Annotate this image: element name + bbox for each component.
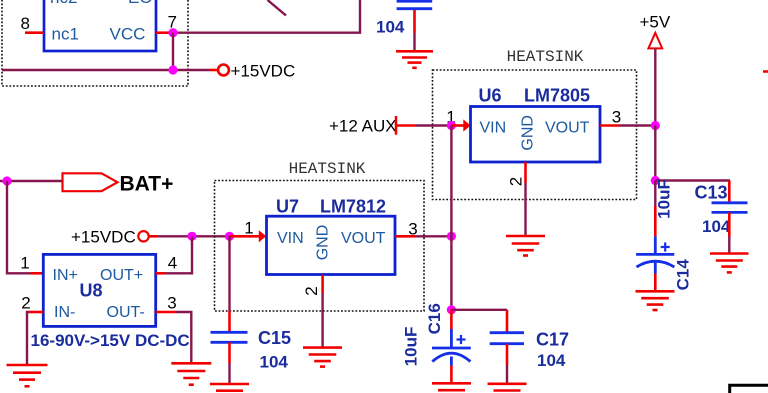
svg-text:104: 104 [376, 17, 405, 36]
ground (U8 pin3) [171, 363, 211, 384]
plus sign (C16) [457, 335, 466, 344]
junction U6 pin1 [447, 121, 456, 130]
capacitor C15 bottom lead [228, 342, 231, 363]
U6 pin3 stub [600, 124, 620, 127]
svg-text:HEATSINK: HEATSINK [289, 160, 366, 178]
svg-text:GND: GND [315, 225, 332, 261]
dotted enclosure HEATSINK U7 [215, 181, 425, 312]
capacitor C16 bottom lead [450, 357, 453, 366]
junction main vertical at U7 out [447, 232, 456, 241]
sheet frame corner (bottom right) [730, 385, 768, 393]
capacitor C14 curved plate [637, 261, 675, 267]
capacitor C17 bottom lead [506, 344, 509, 365]
capacitor C17 top lead [506, 310, 509, 333]
svg-text:LM7812: LM7812 [320, 197, 386, 217]
U6 pin1 arrow [451, 124, 464, 127]
regulator U6 body [471, 107, 601, 163]
svg-text:U7: U7 [276, 197, 299, 217]
capacitor C17 plates [490, 331, 524, 334]
svg-text:BAT+: BAT+ [120, 173, 174, 196]
svg-text:EO: EO [128, 0, 153, 7]
capacitor C16 curved plate [432, 353, 470, 361]
ground (C13) [710, 254, 749, 273]
wire pin7 junction down [172, 33, 174, 70]
svg-text:IN+: IN+ [53, 267, 78, 284]
svg-text:+15VDC: +15VDC [231, 61, 296, 80]
wire pin7 to top component [171, 0, 360, 33]
capacitor C15 plates [211, 331, 248, 334]
ground (C15) [210, 384, 249, 391]
capacitor C14 bottom lead [654, 263, 657, 274]
port tick +12 AUX [395, 116, 398, 135]
U7 pin3 stub [395, 235, 415, 238]
wire +15VDC stub red [149, 235, 157, 238]
U7 pin2 stub [321, 275, 324, 294]
wire branch to C17 [451, 309, 507, 311]
U8 pin4 stub [156, 272, 165, 275]
capacitor C13 top lead [728, 181, 731, 203]
svg-text:104: 104 [702, 217, 731, 236]
port circle +15VDC (top) [218, 65, 229, 76]
svg-text:16-90V->15V DC-DC: 16-90V->15V DC-DC [31, 331, 190, 350]
U8 pin2 stub [29, 311, 43, 314]
svg-text:VOUT: VOUT [545, 119, 590, 136]
ground (top capacitor) [396, 51, 433, 68]
far-right wire stub (cut off) [763, 70, 768, 73]
svg-text:VIN: VIN [277, 230, 304, 247]
capacitor C13 bottom lead [728, 212, 731, 236]
svg-text:HEATSINK: HEATSINK [507, 48, 584, 66]
pin 7 stub [156, 31, 171, 34]
wire horizontal +15VDC net top [2, 69, 210, 71]
svg-text:C15: C15 [258, 328, 291, 348]
dotted enclosure HEATSINK U6 [433, 70, 637, 200]
wire U7 pin2 to ground [321, 293, 323, 347]
capacitor C? top 104 : red lead below [413, 10, 416, 33]
capacitor C14 top lead [654, 181, 656, 207]
junction at pin7 [168, 28, 177, 37]
svg-text:VIN: VIN [480, 119, 507, 136]
svg-text:2: 2 [507, 177, 526, 186]
svg-text:8: 8 [21, 14, 30, 33]
wire +5V net down [654, 126, 656, 181]
ground (U8 pin2) [7, 365, 48, 386]
svg-text:+12 AUX: +12 AUX [329, 117, 397, 136]
capacitor C14 plate [636, 253, 674, 256]
wire +12 AUX to U6 pin1 [416, 124, 451, 126]
wire U8 pin3 to ground [176, 312, 191, 363]
port circle +15VDC (mid) [138, 231, 148, 241]
svg-text:VCC: VCC [110, 25, 146, 44]
dotted enclosure top-left [2, 0, 188, 86]
regulator U7 body [267, 216, 396, 274]
svg-text:10uF: 10uF [655, 179, 674, 219]
capacitor C16 top lead [450, 310, 453, 329]
IC body (unlabeled, cut off at top) [44, 0, 156, 51]
wire red to U7 pin1 arrow [230, 235, 260, 238]
capacitor plates top 104 [397, 0, 433, 3]
capacitor C13 plates [712, 201, 748, 204]
main vertical wire [450, 126, 452, 311]
diagonal segment of cut-off component [268, 0, 287, 16]
wire U8 pin2 to ground [27, 312, 29, 365]
svg-text:C13: C13 [695, 183, 728, 203]
U6 pin2 stub [524, 162, 527, 183]
svg-text:104: 104 [537, 351, 566, 370]
port BAT+ pentagon [63, 173, 118, 191]
svg-text:C16: C16 [425, 303, 444, 334]
junction +15VDC at U8 out [187, 232, 196, 241]
svg-text:2: 2 [302, 286, 321, 295]
svg-text:2: 2 [21, 294, 30, 313]
junction +5V net at U6 out [651, 121, 660, 130]
svg-text:10uF: 10uF [402, 327, 421, 367]
ground (C17) [488, 384, 527, 391]
svg-text:4: 4 [168, 254, 177, 273]
svg-text:GND: GND [519, 115, 536, 151]
junction main vertical at C16 [447, 305, 456, 314]
svg-text:104: 104 [260, 353, 289, 372]
junction +15VDC at C15 [225, 232, 234, 241]
wire branch to C13 [655, 179, 730, 181]
svg-text:nc1: nc1 [52, 25, 79, 44]
wire U6 pin2 to ground [524, 183, 526, 236]
capacitor C16 plate [432, 347, 471, 350]
wire +5V down to VOUT net [654, 48, 656, 125]
wire below top capacitor [413, 33, 415, 51]
ground (U7 pin2) [303, 348, 342, 367]
U7 pin1 arrow [259, 230, 266, 242]
svg-text:OUT-: OUT- [107, 304, 145, 321]
junction on +15VDC net [168, 65, 177, 74]
wire U8 pin4 up to +15VDC [165, 236, 192, 273]
svg-text:3: 3 [167, 294, 176, 313]
junction BAT+ [2, 176, 11, 185]
ground (C16) [432, 383, 471, 390]
wire U6 pin3 to +5V net [620, 124, 655, 126]
wire +12 AUX red stub [396, 124, 416, 127]
wire BAT+ down to U8 pin1 [7, 181, 31, 273]
svg-text:C17: C17 [536, 329, 569, 349]
svg-text:U8: U8 [80, 281, 103, 301]
junction +5V net at C14 branch [651, 176, 660, 185]
svg-text:1: 1 [20, 254, 29, 273]
svg-text:U6: U6 [479, 86, 502, 106]
wire BAT+ net from left edge [0, 180, 63, 182]
wire C15 top lead [228, 236, 230, 311]
svg-text:3: 3 [612, 108, 621, 127]
U8 pin3 stub [156, 311, 176, 314]
plus sign (C14) [661, 242, 670, 251]
svg-text:C14: C14 [674, 259, 693, 291]
converter U8 body [43, 254, 155, 326]
svg-text:VOUT: VOUT [341, 230, 386, 247]
svg-text:IN-: IN- [54, 304, 75, 321]
ground (U6 pin2) [506, 236, 545, 256]
U8 pin1 stub [31, 272, 44, 275]
svg-text:LM7805: LM7805 [524, 86, 590, 106]
ground (C14) [636, 291, 675, 310]
wire +15VDC to junctions [157, 235, 230, 237]
svg-text:nc2: nc2 [50, 0, 77, 7]
svg-text:+5V: +5V [640, 13, 671, 32]
svg-text:OUT+: OUT+ [100, 267, 143, 284]
pin 8 stub [25, 31, 44, 34]
svg-text:+15VDC: +15VDC [71, 228, 136, 247]
svg-text:1: 1 [244, 219, 253, 238]
wire U7 pin3 to main vertical [415, 235, 451, 237]
